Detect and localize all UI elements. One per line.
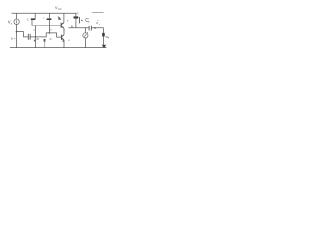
wire source top lead <box>16 13 18 19</box>
speck chain E hook <box>63 40 64 42</box>
wire input staircase <box>17 32 29 37</box>
capacitor C2p plate <box>78 17 80 23</box>
svg-text:r: r <box>43 16 44 20</box>
resistor RC box <box>74 16 79 18</box>
wire source bottom lead <box>16 25 18 48</box>
collector current arrow <box>58 17 60 20</box>
resistor R2 box <box>47 18 52 20</box>
node dot A <box>35 36 37 38</box>
svg-text:T: T <box>67 19 69 23</box>
wire chain B <box>48 13 50 33</box>
source V1 arrow <box>16 20 18 23</box>
svg-text:u: u <box>50 37 52 41</box>
svg-text:CC: CC <box>58 8 62 11</box>
wire Q1 emitter to Q2 collector <box>63 28 65 35</box>
resistor RL box <box>102 33 105 37</box>
wire jog base2 <box>36 33 62 37</box>
svg-text:u: u <box>11 36 13 40</box>
wire Q2 emitter to ground <box>63 40 65 47</box>
capacitor C2p dot plate <box>81 20 82 21</box>
speck chain A hook <box>34 40 35 42</box>
wire C1 to node A <box>30 36 35 38</box>
node dot B <box>49 32 51 34</box>
wire ground tick mid <box>44 42 46 48</box>
wire Q1 collector <box>63 13 65 22</box>
node dot source branch <box>16 31 18 33</box>
ground arrow <box>102 45 106 49</box>
source V1 circle <box>14 19 19 24</box>
wire base1 bus <box>32 25 61 27</box>
transistor Q2 <box>62 35 65 41</box>
meter circle <box>83 33 88 38</box>
capacitor C2 plates <box>89 26 91 31</box>
svg-text:R: R <box>77 11 79 15</box>
transistor Q2 emitter arrow <box>63 39 64 40</box>
transistor Q1 emitter arrow <box>63 27 64 28</box>
emitter arrowhead blob Q1 <box>64 30 65 31</box>
transistor Q1 <box>61 23 64 29</box>
svg-text:u: u <box>94 26 96 30</box>
meter needle <box>84 34 86 37</box>
wire bottom rail <box>10 47 107 49</box>
resistor R1 box <box>31 18 36 20</box>
capacitor C1 plates <box>28 34 30 40</box>
wire meter branch <box>84 28 86 48</box>
wire output horizontal <box>69 27 104 29</box>
wire chain A upper <box>32 13 36 47</box>
wire chain D collector branch <box>75 13 77 27</box>
wire top rail <box>12 12 77 14</box>
label uo overbar dash <box>92 12 104 14</box>
wire RL chain <box>102 28 104 45</box>
